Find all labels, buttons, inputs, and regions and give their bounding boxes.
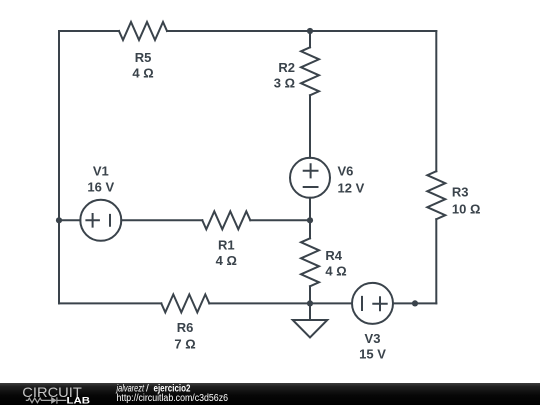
wire: left rail to V1 <box>59 219 80 221</box>
svg-text:3 Ω: 3 Ω <box>274 75 295 90</box>
svg-text:R4: R4 <box>325 248 342 263</box>
CircuitLab logo wordmark <box>22 383 228 405</box>
svg-text:LAB: LAB <box>67 395 91 405</box>
wire: top rail right segment <box>167 30 436 32</box>
wire: bottom rail to V3 <box>209 302 352 304</box>
svg-text:V1: V1 <box>93 164 109 179</box>
svg-text:http://circuitlab.com/c3d56z6: http://circuitlab.com/c3d56z6 <box>117 393 229 404</box>
svg-text:R5: R5 <box>135 50 152 65</box>
voltage source V6 <box>290 158 330 198</box>
resistor R6 <box>161 294 209 312</box>
wire: left rail <box>58 31 60 303</box>
node: ground junction <box>307 300 313 306</box>
footer bar <box>0 383 540 405</box>
wire: mid node to R4 <box>309 220 311 238</box>
svg-text:4 Ω: 4 Ω <box>216 253 237 268</box>
node: mid junction <box>307 217 313 223</box>
voltage source V3 <box>352 283 393 324</box>
resistor R1 <box>202 211 250 229</box>
svg-text:15 V: 15 V <box>359 347 386 362</box>
svg-text:V3: V3 <box>365 331 381 346</box>
ground <box>293 303 328 337</box>
logo resistor-diode glyph <box>26 397 67 403</box>
wire: V1 to R1 <box>121 219 202 221</box>
node: left rail junction <box>56 217 62 223</box>
svg-text:12 V: 12 V <box>338 180 365 195</box>
svg-text:R2: R2 <box>278 60 295 75</box>
resistor R3 <box>427 171 445 219</box>
resistor R4 <box>301 238 319 286</box>
wire: V6 to mid node <box>309 198 311 221</box>
node: top junction <box>307 28 313 34</box>
resistor R2 <box>301 47 319 95</box>
svg-text:10 Ω: 10 Ω <box>452 202 481 217</box>
wire: R1 to mid node <box>250 219 310 221</box>
wire: right rail upper <box>435 31 437 171</box>
voltage source V1 <box>80 200 121 241</box>
svg-text:4 Ω: 4 Ω <box>132 66 153 81</box>
wire: R2 top lead <box>309 31 311 47</box>
svg-text:4 Ω: 4 Ω <box>325 264 346 279</box>
node: V3 right junction <box>412 300 418 306</box>
wire: R4 to bottom node <box>309 286 311 303</box>
wire: R2 to V6 <box>309 95 311 158</box>
svg-text:16 V: 16 V <box>87 180 114 195</box>
svg-text:R6: R6 <box>177 320 194 335</box>
svg-text:7 Ω: 7 Ω <box>174 337 195 352</box>
svg-text:R3: R3 <box>452 185 469 200</box>
wire: top rail left segment <box>59 30 119 32</box>
wire: right rail lower <box>435 219 437 303</box>
resistor R5 <box>119 22 167 40</box>
svg-text:R1: R1 <box>218 237 235 252</box>
wire: bottom rail left segment <box>59 302 161 304</box>
wire: right rail to V3 <box>393 302 436 304</box>
svg-text:V6: V6 <box>338 164 354 179</box>
